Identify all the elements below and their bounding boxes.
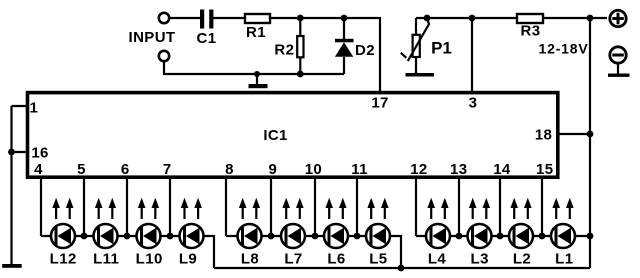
wire pin 9 xyxy=(270,178,272,236)
svg-text:L1: L1 xyxy=(555,251,573,268)
svg-text:L7: L7 xyxy=(284,251,302,268)
wire pin 8 xyxy=(225,178,227,236)
svg-text:5: 5 xyxy=(77,161,86,178)
node junction L10-L9 xyxy=(167,233,174,240)
svg-text:17: 17 xyxy=(371,95,388,112)
arrows L4 xyxy=(427,198,448,219)
svg-text:L2: L2 xyxy=(513,251,531,268)
node P1 top junction xyxy=(424,15,431,22)
wire left ground rail xyxy=(10,106,12,264)
svg-text:INPUT: INPUT xyxy=(129,29,176,46)
diode D2 xyxy=(335,18,354,74)
arrows L7 xyxy=(282,198,303,219)
svg-text:L11: L11 xyxy=(93,251,119,268)
ground (input rail) xyxy=(249,71,268,88)
arrows L1 xyxy=(552,198,573,219)
arrows L10 xyxy=(138,198,159,219)
wire pin 1 stub xyxy=(12,105,29,107)
svg-text:R2: R2 xyxy=(274,42,294,59)
LED L11 xyxy=(94,224,118,248)
wire LED chain A xyxy=(41,236,214,268)
arrows L5 xyxy=(367,198,388,219)
svg-text:L4: L4 xyxy=(428,251,447,268)
wire pin 10 xyxy=(314,178,316,236)
svg-text:4: 4 xyxy=(34,161,43,178)
resistor R3 xyxy=(517,14,543,23)
arrows L12 xyxy=(52,198,73,219)
svg-text:16: 16 xyxy=(31,145,48,162)
node pin16 junction xyxy=(8,149,15,156)
wire pin 6 xyxy=(126,178,128,236)
node junction L2-L1 xyxy=(539,233,546,240)
node plus rail junction xyxy=(587,15,594,22)
svg-text:D2: D2 xyxy=(355,42,375,59)
wire pin 12 xyxy=(415,178,417,236)
arrows L2 xyxy=(510,198,531,219)
svg-text:L8: L8 xyxy=(241,251,259,268)
svg-text:R1: R1 xyxy=(246,24,266,41)
ground (P1) xyxy=(406,73,435,77)
wire pin 7 xyxy=(169,178,171,236)
wire plus vertical rail xyxy=(589,18,591,268)
LED L12 xyxy=(51,224,75,248)
svg-text:P1: P1 xyxy=(431,39,452,58)
ground (left rail) xyxy=(2,264,22,268)
resistor R1 xyxy=(245,14,270,23)
potentiometer P1 xyxy=(401,18,429,73)
svg-text:L3: L3 xyxy=(471,251,489,268)
svg-text:18: 18 xyxy=(535,127,552,144)
node junction chainB-rail xyxy=(398,265,405,272)
capacitor C1 xyxy=(200,10,213,29)
node R2 bottom junction xyxy=(297,71,304,78)
svg-text:10: 10 xyxy=(305,161,322,178)
svg-text:L10: L10 xyxy=(136,251,163,268)
svg-text:L9: L9 xyxy=(179,251,197,268)
wire input bottom rail xyxy=(164,62,344,75)
LED L4 xyxy=(426,224,450,248)
svg-text:9: 9 xyxy=(268,161,277,178)
arrows L6 xyxy=(325,198,346,219)
input terminal top xyxy=(159,13,169,23)
arrows L8 xyxy=(239,198,260,219)
wire pin 3 xyxy=(471,18,473,92)
node junction L12-L11 xyxy=(81,233,88,240)
resistor R2 xyxy=(297,18,303,74)
terminal plus xyxy=(610,10,626,26)
svg-text:15: 15 xyxy=(536,161,553,178)
LED L9 xyxy=(180,224,204,248)
wire pin 4 xyxy=(40,178,42,236)
svg-text:3: 3 xyxy=(469,95,478,112)
node R2 top junction xyxy=(297,15,304,22)
node junction L8-L7 xyxy=(268,233,275,240)
wire pin 16 stub xyxy=(12,151,29,153)
svg-text:L5: L5 xyxy=(369,251,387,268)
input terminal bottom xyxy=(159,51,169,61)
svg-text:L6: L6 xyxy=(327,251,345,268)
LED L7 xyxy=(281,224,305,248)
svg-text:12: 12 xyxy=(410,161,427,178)
node junction L3-L2 xyxy=(497,233,504,240)
arrows L3 xyxy=(469,198,490,219)
wire bottom return rail xyxy=(214,267,590,269)
wire R3 to plus terminal xyxy=(543,17,607,19)
terminal minus xyxy=(610,47,626,63)
node D2 top junction xyxy=(341,15,348,22)
ground (minus terminal) xyxy=(608,65,630,77)
svg-text:8: 8 xyxy=(225,161,234,178)
LED L5 xyxy=(366,224,390,248)
wire pin 11 xyxy=(356,178,358,236)
svg-text:1: 1 xyxy=(29,100,38,117)
node pin18 junction xyxy=(587,131,594,138)
wire pin 15 xyxy=(541,178,543,236)
wire pin 18 stub xyxy=(556,133,590,135)
svg-text:C1: C1 xyxy=(197,30,217,47)
node junction L11-L10 xyxy=(124,233,131,240)
svg-text:13: 13 xyxy=(450,161,467,178)
svg-text:11: 11 xyxy=(351,161,367,178)
wire C1 to R1 xyxy=(213,17,245,19)
svg-text:12-18V: 12-18V xyxy=(539,41,589,57)
LED L2 xyxy=(509,224,533,248)
svg-text:6: 6 xyxy=(121,161,130,178)
node junction L7-L6 xyxy=(312,233,319,240)
svg-text:IC1: IC1 xyxy=(263,127,287,144)
svg-text:14: 14 xyxy=(493,161,511,178)
LED L6 xyxy=(324,224,348,248)
arrows L11 xyxy=(95,198,116,219)
node junction L1-rail xyxy=(587,233,594,240)
LED L3 xyxy=(468,224,492,248)
wire LED chain C xyxy=(416,235,590,237)
IC IC1 xyxy=(28,93,558,178)
node pin3 junction xyxy=(469,15,476,22)
wire pin 14 xyxy=(499,178,501,236)
node junction L6-L5 xyxy=(354,233,361,240)
wire supply rail P1 to R3 xyxy=(416,17,517,19)
svg-text:7: 7 xyxy=(163,161,172,178)
LED L10 xyxy=(137,224,161,248)
svg-text:R3: R3 xyxy=(521,23,541,40)
wire pin 5 xyxy=(83,178,85,236)
node junction L4-L3 xyxy=(456,233,463,240)
LED L1 xyxy=(551,224,575,248)
arrows L9 xyxy=(181,198,202,219)
svg-text:L12: L12 xyxy=(50,251,77,268)
LED L8 xyxy=(238,224,262,248)
wire R1 to pin17 corner xyxy=(270,18,380,91)
wire input top to C1 xyxy=(169,17,200,19)
wire pin 13 xyxy=(458,178,460,236)
wire LED chain B xyxy=(226,236,401,268)
